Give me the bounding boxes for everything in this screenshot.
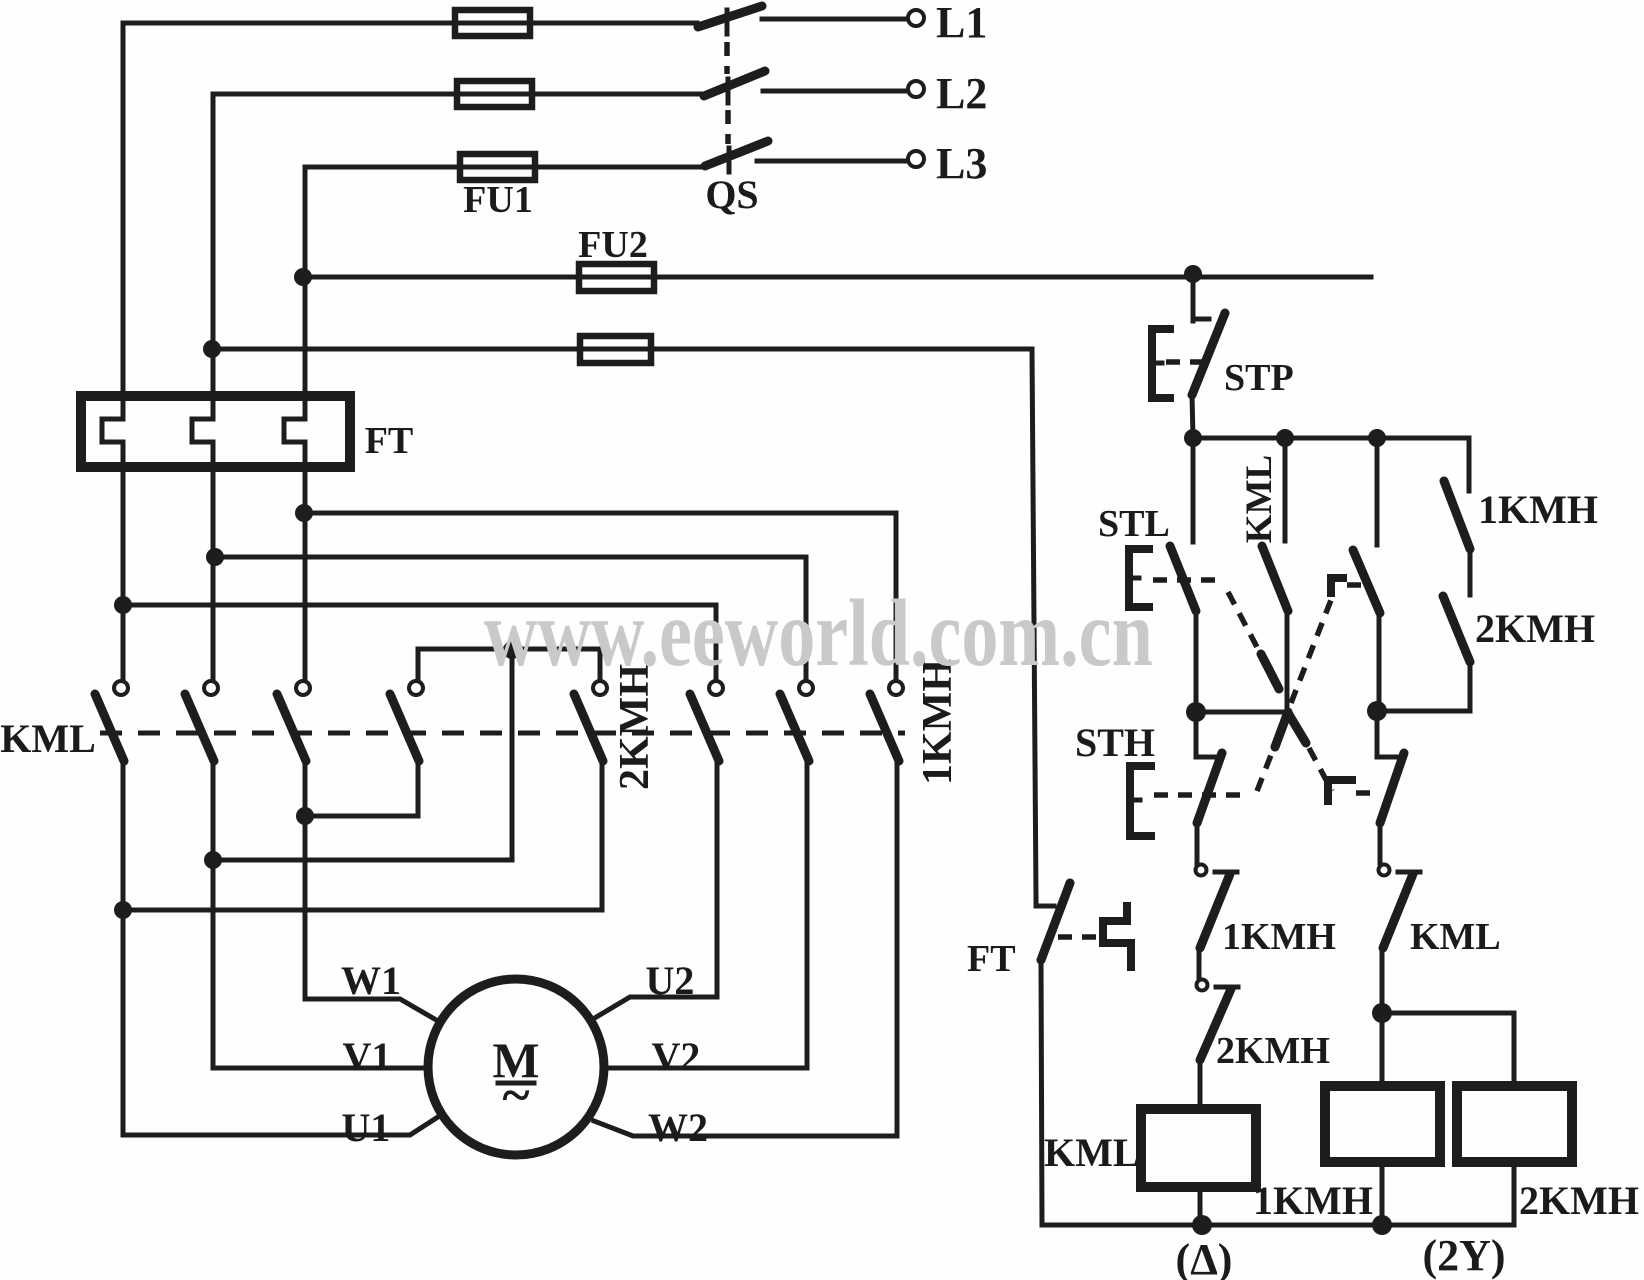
contactor 2KMH aux contact [1377, 596, 1470, 711]
svg-text:L3: L3 [936, 139, 987, 188]
svg-text:FU1: FU1 [463, 179, 533, 221]
svg-text:U1: U1 [342, 1105, 391, 1150]
fuse FU2 pole 2 [580, 336, 651, 363]
wire phase1 lower [121, 761, 126, 1135]
pushbutton STH lower contact [1130, 712, 1250, 863]
contact FT NC [1032, 349, 1131, 1225]
wire motor lead V1 [213, 1066, 429, 1071]
svg-text:L1: L1 [936, 0, 987, 47]
wire row to 1KMH pole A [123, 605, 716, 681]
contactor KML pole 1 [95, 681, 128, 761]
switch QS pole 1 [698, 6, 906, 34]
motor M [428, 979, 604, 1155]
mech link STH diagonal [1275, 712, 1288, 747]
svg-text:L2: L2 [936, 69, 987, 118]
pushbutton STH upper contact [1353, 438, 1380, 711]
wire row to 1KMH pole C [305, 513, 896, 681]
svg-text:FU2: FU2 [578, 224, 648, 266]
node right branch [1367, 701, 1387, 721]
mech link dashed main [100, 731, 905, 736]
node phase2 to 1KMH [206, 548, 224, 566]
switch QS pole 3 [705, 141, 906, 172]
wire phase L2 row [213, 92, 704, 97]
contactor 2KMH pole A [390, 681, 423, 816]
switch QS link dash 2 [725, 110, 731, 144]
svg-text:2KMH: 2KMH [1216, 1030, 1330, 1072]
wire control node row [1193, 436, 1469, 441]
fuse FU1 pole 3 [460, 154, 535, 180]
contact 2KMH NC interlock [1197, 980, 1239, 1110]
svg-text:V1: V1 [343, 1034, 392, 1079]
wire bridge star to phase2 [213, 858, 512, 863]
fuse FU1 pole 1 [455, 10, 530, 36]
svg-text:W2: W2 [648, 1105, 708, 1150]
wire phase2 vertical [211, 94, 216, 396]
contactor 1KMH pole B [780, 681, 813, 1068]
pushbutton STL [1129, 438, 1224, 712]
svg-text:www.eeworld.com.cn: www.eeworld.com.cn [484, 581, 1153, 686]
wire control rail bottom [213, 347, 1032, 352]
mech link hook right lower [1328, 780, 1374, 801]
wire bottom rail [1042, 1223, 1514, 1228]
svg-text:1KMH: 1KMH [1222, 916, 1336, 958]
terminal L3 [908, 139, 987, 188]
node STH branch [1368, 429, 1386, 447]
wire bridge 2KMH-A to phase3 [305, 814, 418, 819]
wire motor lead U2 [593, 997, 717, 1019]
svg-text:(2Y): (2Y) [1422, 1231, 1505, 1280]
wire phase1 vertical [121, 23, 126, 396]
svg-text:KML: KML [1410, 916, 1501, 958]
switch QS pole 2 [704, 71, 906, 103]
contact STL NC right branch [1377, 711, 1404, 863]
node left branch [1186, 702, 1206, 722]
switch QS link dash 1 [724, 42, 730, 74]
wire bridge 2KMH-B to phase1 [123, 908, 602, 913]
coil 2KMH [1457, 1086, 1572, 1225]
wire 2KMH top tie [418, 649, 600, 681]
svg-text:FT: FT [365, 420, 414, 462]
node 1KMH coil return [1372, 1215, 1392, 1235]
node bridge U1 [114, 901, 132, 919]
svg-text:W1: W1 [341, 958, 401, 1003]
node coil split [1372, 1003, 1392, 1023]
svg-text:STL: STL [1098, 503, 1170, 545]
svg-text:1KMH: 1KMH [1478, 487, 1598, 532]
wire motor lead U1 [123, 1115, 441, 1135]
wire phase3 lower [303, 761, 308, 999]
coil KML [1141, 1109, 1256, 1225]
wire phase2 lower [211, 761, 216, 1068]
wire phase L3 row [305, 165, 705, 170]
svg-text:1KMH: 1KMH [1253, 1178, 1373, 1223]
node phase3 to 1KMH [295, 504, 313, 522]
svg-text:STP: STP [1224, 357, 1294, 399]
svg-text:KML: KML [1239, 455, 1280, 543]
fuse FU1 pole 2 [457, 81, 532, 107]
contactor KML aux contact [1262, 438, 1288, 712]
svg-text:U2: U2 [646, 958, 695, 1003]
wire phase3 below FT [303, 467, 308, 681]
svg-text:KML: KML [1044, 1130, 1140, 1175]
svg-text:2KMH: 2KMH [1475, 606, 1595, 651]
wire star drop [510, 650, 515, 860]
node STP tap [1184, 265, 1202, 283]
contact KML NC interlock [1379, 865, 1421, 1014]
wire left node row [1196, 710, 1288, 715]
svg-text:STH: STH [1075, 720, 1155, 765]
contact 1KMH NC interlock [1196, 865, 1238, 984]
contactor 1KMH pole A [690, 681, 723, 997]
wire phase1 below FT [121, 467, 126, 681]
contactor 2KMH pole B [574, 681, 607, 908]
thermal relay FT block [81, 396, 350, 467]
contactor KML pole 3 [277, 681, 310, 761]
wire phase2 below FT [211, 467, 216, 681]
fuse FU2 pole 1 [579, 264, 654, 291]
terminal L2 [908, 69, 987, 118]
node KML coil return [1192, 1215, 1212, 1235]
wire phase L1 row [123, 21, 697, 26]
mech link STL diagonal [1228, 592, 1258, 649]
svg-text:QS: QS [705, 172, 758, 217]
node bridge V1 [204, 851, 222, 869]
node control feed B [203, 340, 221, 358]
wire motor lead V2 [603, 1066, 807, 1071]
mech link hook right upper [1331, 578, 1363, 593]
node phase1 to 1KMH [114, 596, 132, 614]
pushbutton STP [1152, 274, 1225, 438]
svg-text:2KMH: 2KMH [1519, 1178, 1639, 1223]
coil 1KMH [1325, 1013, 1440, 1225]
node STL branch [1184, 429, 1202, 447]
svg-text:(Δ): (Δ) [1176, 1235, 1233, 1280]
node 2KMH tie [503, 641, 521, 659]
node KML aux branch [1276, 429, 1294, 447]
contactor 1KMH aux contact [1444, 438, 1470, 595]
node control feed A [294, 268, 312, 286]
wire row to 1KMH pole B [213, 557, 806, 681]
contactor KML pole 2 [185, 681, 218, 761]
svg-text:FT: FT [967, 938, 1016, 980]
contactor 1KMH pole C [870, 681, 903, 1136]
terminal L1 [908, 0, 987, 47]
svg-text:~: ~ [502, 1067, 529, 1124]
wire to 2KMH coil [1382, 1013, 1514, 1086]
wire control rail top [305, 275, 1371, 280]
wire motor lead W1 [305, 999, 438, 1021]
wire motor lead W2 [594, 1121, 897, 1136]
svg-text:KML: KML [0, 716, 96, 761]
svg-text:V2: V2 [652, 1034, 701, 1079]
node bridge W1 [296, 807, 314, 825]
wire phase3 vertical [303, 167, 308, 396]
